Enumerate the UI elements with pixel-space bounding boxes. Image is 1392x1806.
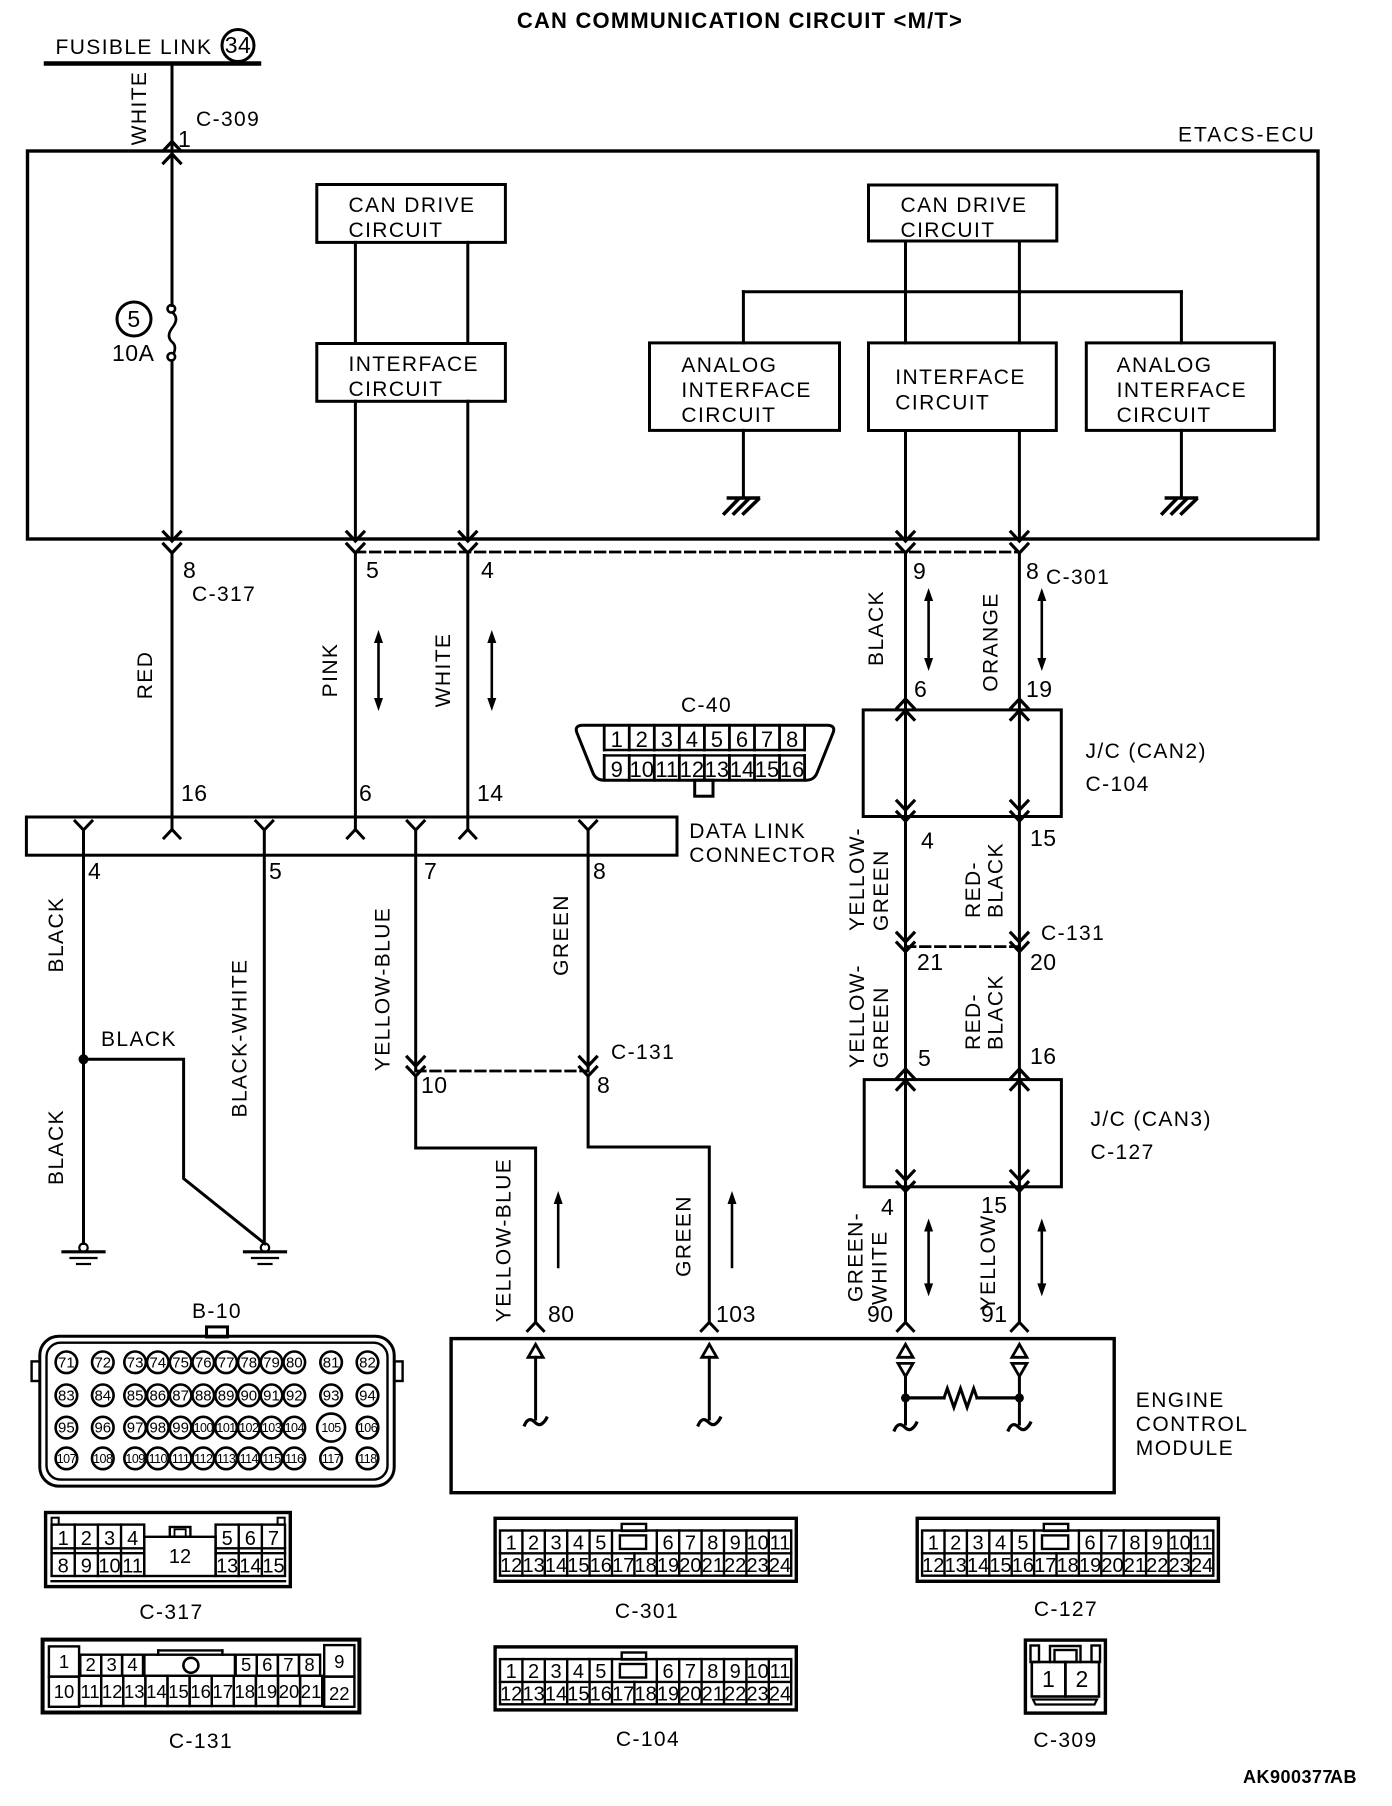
- svg-text:10: 10: [54, 1681, 75, 1702]
- junction connector J/C (CAN3) box: [864, 1080, 1061, 1187]
- svg-text:104: 104: [285, 1421, 305, 1435]
- wire YELLOW-BLUE: C-131 to ECM pin 80: [416, 1076, 536, 1322]
- wire YELLOW-GREEN: C-131 to J/C CAN3: [904, 947, 907, 1080]
- wire through J/C CAN2 (right): [1018, 710, 1021, 817]
- wire BLACK: C-301 to J/C (CAN2): [904, 553, 907, 710]
- svg-text:YELLOW-BLUE: YELLOW-BLUE: [372, 907, 395, 1071]
- DLC pin 8 exit (GREEN): [580, 821, 597, 830]
- svg-text:WHITE: WHITE: [869, 1230, 892, 1305]
- ground lead analog L: [742, 430, 745, 498]
- wire WHITE: fusible link to ETACS-ECU C-309 pin 1: [171, 64, 174, 306]
- svg-text:5: 5: [241, 1654, 251, 1675]
- svg-text:8: 8: [786, 727, 798, 752]
- svg-text:WHITE: WHITE: [432, 633, 455, 708]
- ECM internal lead below pin 90: [904, 1398, 907, 1424]
- svg-text:YELLOW-: YELLOW-: [846, 964, 869, 1068]
- svg-text:10: 10: [746, 1661, 768, 1683]
- connector arrows into J/C CAN2 (pin 19): [1011, 699, 1028, 708]
- connector boundary dashed line C-131 (left): [416, 1070, 588, 1073]
- DLC pin 16 entry (RED): [164, 830, 180, 839]
- svg-text:115: 115: [262, 1452, 281, 1466]
- ECM internal lead below pin 91: [1018, 1398, 1021, 1424]
- svg-text:5: 5: [269, 858, 282, 884]
- svg-text:11: 11: [80, 1681, 99, 1702]
- svg-text:20: 20: [679, 1683, 701, 1705]
- svg-text:BLACK: BLACK: [984, 974, 1007, 1050]
- svg-text:INTERFACE: INTERFACE: [895, 366, 1025, 389]
- svg-text:113: 113: [217, 1452, 236, 1466]
- fusible link bus bar: [46, 61, 259, 66]
- svg-text:19: 19: [657, 1555, 679, 1577]
- wire: CAN drive R to interface R (right leg): [1018, 241, 1021, 343]
- svg-text:10: 10: [1169, 1532, 1191, 1554]
- svg-text:FUSIBLE LINK: FUSIBLE LINK: [56, 36, 213, 59]
- svg-text:12: 12: [500, 1683, 522, 1705]
- DLC pin 14 entry (WHITE): [460, 830, 476, 839]
- svg-text:GREEN: GREEN: [550, 894, 573, 976]
- svg-text:5: 5: [918, 1045, 931, 1071]
- wire YELLOW-GREEN: J/C CAN2 to C-131: [904, 817, 907, 947]
- svg-text:ETACS-ECU: ETACS-ECU: [1178, 124, 1316, 147]
- connector arrows into ETACS top (C-309 pin 1): [164, 142, 181, 151]
- svg-text:12: 12: [680, 757, 704, 782]
- svg-text:C-131: C-131: [1041, 922, 1105, 945]
- ECM pin 80 entry fork: [528, 1322, 544, 1331]
- signal direction arrow (BLACK): [927, 598, 930, 661]
- svg-text:17: 17: [212, 1681, 233, 1702]
- svg-text:110: 110: [149, 1452, 168, 1466]
- svg-text:91: 91: [263, 1387, 280, 1404]
- svg-text:83: 83: [58, 1387, 75, 1404]
- signal direction arrow (PINK): [377, 640, 380, 701]
- connector C-104 pictorial (24-pin): [495, 1647, 796, 1710]
- connector arrows C-131 pin 21: [897, 933, 914, 942]
- svg-text:89: 89: [218, 1387, 235, 1404]
- svg-text:17: 17: [612, 1683, 634, 1705]
- svg-text:7: 7: [1107, 1532, 1118, 1554]
- junction node (resistor right): [1015, 1393, 1024, 1402]
- svg-text:11: 11: [655, 757, 678, 782]
- svg-text:WHITE: WHITE: [128, 71, 151, 146]
- svg-text:3: 3: [661, 727, 673, 752]
- svg-text:71: 71: [58, 1354, 75, 1371]
- svg-text:95: 95: [58, 1420, 75, 1437]
- svg-text:76: 76: [195, 1354, 212, 1371]
- svg-text:23: 23: [746, 1555, 768, 1577]
- svg-text:94: 94: [359, 1387, 376, 1404]
- svg-text:97: 97: [127, 1420, 144, 1437]
- svg-text:12: 12: [500, 1555, 522, 1577]
- DLC pin 5 exit (BLACK-WHITE): [256, 821, 273, 830]
- svg-text:100: 100: [194, 1421, 214, 1435]
- svg-text:15: 15: [168, 1681, 189, 1702]
- svg-text:5: 5: [366, 557, 379, 583]
- svg-text:1: 1: [611, 727, 623, 752]
- svg-text:15: 15: [567, 1683, 589, 1705]
- svg-text:16: 16: [181, 780, 208, 806]
- stub to analog interface R: [1180, 292, 1183, 343]
- svg-text:22: 22: [724, 1555, 746, 1577]
- svg-text:7: 7: [761, 727, 773, 752]
- svg-text:19: 19: [257, 1681, 278, 1702]
- junction node (resistor left): [901, 1393, 910, 1402]
- connector C-309 pictorial (2-pin): [1025, 1640, 1105, 1713]
- svg-text:111: 111: [172, 1452, 190, 1466]
- svg-text:BLACK-WHITE: BLACK-WHITE: [229, 959, 252, 1118]
- svg-text:12: 12: [922, 1555, 944, 1577]
- svg-text:15: 15: [989, 1555, 1011, 1577]
- wire YELLOW-BLUE: DLC pin 7 to C-131: [414, 855, 417, 1071]
- svg-text:8: 8: [597, 1072, 610, 1098]
- connector boundary dashed line C-317/C-301: [355, 551, 1019, 554]
- svg-text:5: 5: [127, 306, 140, 332]
- svg-text:C-309: C-309: [1033, 1729, 1097, 1752]
- svg-text:18: 18: [1057, 1555, 1079, 1577]
- svg-text:2: 2: [636, 727, 648, 752]
- svg-text:CIRCUIT: CIRCUIT: [895, 392, 990, 415]
- svg-text:BLACK: BLACK: [984, 842, 1007, 918]
- svg-text:CONNECTOR: CONNECTOR: [689, 844, 837, 867]
- svg-text:8: 8: [1129, 1532, 1140, 1554]
- svg-text:7: 7: [268, 1528, 279, 1550]
- connector C-301 pictorial (24-pin): [495, 1518, 796, 1581]
- svg-text:16: 16: [590, 1683, 612, 1705]
- svg-text:10A: 10A: [112, 340, 155, 366]
- ECM internal pin 91 (triangle pair): [1012, 1344, 1027, 1357]
- svg-text:6: 6: [662, 1532, 673, 1554]
- signal direction arrow (ORANGE): [1041, 598, 1044, 661]
- svg-text:CIRCUIT: CIRCUIT: [681, 404, 776, 427]
- block INTERFACE CIRCUIT (right): [869, 343, 1057, 431]
- svg-text:2: 2: [1076, 1666, 1089, 1692]
- svg-text:17: 17: [1034, 1555, 1056, 1577]
- svg-text:6: 6: [359, 780, 372, 806]
- svg-text:8: 8: [593, 858, 606, 884]
- svg-text:14: 14: [545, 1555, 567, 1577]
- svg-text:14: 14: [146, 1681, 167, 1702]
- svg-text:20: 20: [679, 1555, 701, 1577]
- block CAN DRIVE CIRCUIT (left): [317, 185, 506, 243]
- ground (body earth, left): [79, 1244, 87, 1252]
- connector arrows C-131 pin 20: [1011, 933, 1028, 942]
- svg-text:8: 8: [183, 557, 196, 583]
- svg-text:CIRCUIT: CIRCUIT: [349, 219, 444, 242]
- svg-text:2: 2: [528, 1532, 539, 1554]
- svg-text:CIRCUIT: CIRCUIT: [349, 378, 444, 401]
- svg-text:BLACK: BLACK: [45, 897, 68, 973]
- svg-text:1: 1: [1042, 1666, 1055, 1692]
- chassis ground (analog interface right): [1166, 496, 1196, 500]
- svg-text:3: 3: [550, 1661, 561, 1683]
- svg-text:16: 16: [590, 1555, 612, 1577]
- svg-text:14: 14: [477, 780, 504, 806]
- svg-text:87: 87: [172, 1387, 189, 1404]
- svg-text:98: 98: [149, 1420, 166, 1437]
- svg-text:16: 16: [190, 1681, 211, 1702]
- svg-text:5: 5: [595, 1661, 606, 1683]
- wire RED-BLACK: J/C CAN2 to C-131: [1018, 817, 1021, 947]
- ground lead analog R: [1180, 430, 1183, 498]
- svg-text:14: 14: [239, 1556, 261, 1578]
- wire GREEN: DLC pin 8 to C-131: [587, 855, 590, 1071]
- svg-text:99: 99: [172, 1420, 189, 1437]
- svg-text:9: 9: [730, 1532, 741, 1554]
- svg-text:8: 8: [58, 1556, 69, 1578]
- svg-text:C-104: C-104: [616, 1728, 680, 1751]
- svg-text:116: 116: [285, 1452, 304, 1466]
- DLC pin 7 exit (YELLOW-BLUE): [407, 821, 424, 830]
- connector arrows into J/C CAN2 (pin 6): [897, 699, 914, 708]
- svg-text:103: 103: [262, 1421, 282, 1435]
- block CAN DRIVE CIRCUIT (right): [869, 185, 1057, 241]
- svg-text:93: 93: [323, 1387, 340, 1404]
- svg-text:2: 2: [528, 1661, 539, 1683]
- svg-text:9: 9: [1152, 1532, 1163, 1554]
- chassis ground (analog interface left): [728, 496, 758, 500]
- wire YELLOW: J/C CAN3 to ECM pin 91: [1018, 1187, 1021, 1323]
- wire PINK: C-317 to data link connector: [354, 553, 357, 830]
- wire ORANGE: interface R to ETACS bottom: [1018, 431, 1021, 540]
- wire: CAN drive L to interface L (left leg): [354, 242, 357, 343]
- svg-text:1: 1: [59, 1651, 69, 1672]
- svg-text:12: 12: [169, 1546, 191, 1568]
- svg-text:AB: AB: [1330, 1767, 1357, 1787]
- ENGINE CONTROL MODULE block: [451, 1339, 1114, 1493]
- connector B-10 pictorial (ECM 48-pin block): [40, 1336, 394, 1486]
- svg-text:4: 4: [995, 1532, 1006, 1554]
- DATA LINK CONNECTOR block: [26, 817, 677, 855]
- wire through J/C CAN3 (left): [904, 1080, 907, 1187]
- wire GREEN-WHITE: J/C CAN3 to ECM pin 90: [904, 1187, 907, 1323]
- svg-text:86: 86: [149, 1387, 166, 1404]
- svg-text:11: 11: [770, 1532, 791, 1554]
- svg-text:23: 23: [746, 1683, 768, 1705]
- svg-text:C-127: C-127: [1034, 1598, 1098, 1621]
- svg-text:10: 10: [98, 1556, 120, 1578]
- svg-text:9: 9: [611, 757, 623, 782]
- terminating resistor R (CAN bus): [906, 1396, 945, 1399]
- svg-text:CIRCUIT: CIRCUIT: [901, 219, 996, 242]
- svg-text:4: 4: [481, 557, 494, 583]
- svg-text:81: 81: [323, 1354, 340, 1371]
- svg-text:21: 21: [1124, 1555, 1146, 1577]
- svg-text:82: 82: [359, 1354, 376, 1371]
- svg-text:B-10: B-10: [192, 1300, 242, 1323]
- connector arrows out of J/C CAN3 (pin 15): [1011, 1171, 1028, 1180]
- svg-text:J/C (CAN3): J/C (CAN3): [1091, 1108, 1212, 1131]
- svg-text:ANALOG: ANALOG: [1117, 354, 1213, 377]
- svg-text:14: 14: [967, 1555, 989, 1577]
- svg-text:13: 13: [705, 757, 729, 782]
- ECM internal pin 103 (triangle, continuation): [702, 1344, 717, 1357]
- svg-text:15: 15: [755, 757, 779, 782]
- svg-text:BLACK: BLACK: [45, 1109, 68, 1185]
- svg-text:4: 4: [921, 828, 934, 854]
- wire RED: C-317 to data link connector: [171, 553, 174, 830]
- svg-text:90: 90: [240, 1387, 257, 1404]
- svg-text:C-131: C-131: [611, 1041, 675, 1064]
- svg-text:117: 117: [322, 1452, 341, 1466]
- svg-text:CONTROL: CONTROL: [1136, 1413, 1248, 1436]
- svg-text:103: 103: [716, 1301, 756, 1327]
- svg-text:24: 24: [769, 1683, 791, 1705]
- svg-text:5: 5: [711, 727, 723, 752]
- svg-text:BLACK: BLACK: [865, 590, 888, 666]
- svg-text:15: 15: [1030, 825, 1057, 851]
- wire: CAN drive R to interface R (left leg): [904, 241, 907, 343]
- svg-text:C-301: C-301: [615, 1600, 679, 1623]
- svg-text:RED: RED: [134, 651, 157, 700]
- svg-text:ORANGE: ORANGE: [980, 592, 1003, 691]
- svg-text:75: 75: [172, 1354, 189, 1371]
- stub to analog interface L: [742, 292, 745, 343]
- connector C-127 pictorial (24-pin): [917, 1518, 1218, 1581]
- svg-text:7: 7: [283, 1654, 293, 1675]
- fuse 5 (circled number): [117, 302, 151, 336]
- ECM pin 91 entry fork: [1011, 1322, 1027, 1331]
- svg-text:ENGINE: ENGINE: [1136, 1389, 1225, 1412]
- svg-text:RED-: RED-: [962, 861, 985, 918]
- block INTERFACE CIRCUIT (left): [317, 344, 506, 402]
- svg-text:14: 14: [545, 1683, 567, 1705]
- connector arrows out of J/C CAN3 (pin 4): [897, 1171, 914, 1180]
- signal direction arrow (GREEN): [731, 1201, 734, 1267]
- svg-text:C-317: C-317: [192, 583, 256, 606]
- connector arrows into J/C CAN3 (pin 5): [897, 1069, 914, 1078]
- svg-text:GREEN: GREEN: [870, 986, 893, 1068]
- svg-text:5: 5: [595, 1532, 606, 1554]
- wire BLACK: DLC pin 4 to ground: [82, 855, 85, 1243]
- svg-text:20: 20: [1030, 949, 1057, 975]
- wire through J/C CAN3 (right): [1018, 1080, 1021, 1187]
- svg-text:23: 23: [1169, 1555, 1191, 1577]
- signal direction arrow (YELLOW-BLUE): [557, 1201, 560, 1267]
- svg-text:15: 15: [567, 1555, 589, 1577]
- svg-text:C-309: C-309: [196, 108, 260, 131]
- svg-text:34: 34: [225, 32, 252, 58]
- svg-text:C-301: C-301: [1046, 566, 1110, 589]
- svg-text:4: 4: [127, 1528, 138, 1550]
- block ANALOG INTERFACE CIRCUIT (right): [1086, 343, 1274, 431]
- svg-text:6: 6: [262, 1654, 272, 1675]
- svg-text:C-127: C-127: [1091, 1141, 1155, 1164]
- svg-text:BLACK: BLACK: [101, 1028, 177, 1051]
- svg-text:5: 5: [222, 1528, 233, 1550]
- svg-text:CAN COMMUNICATION CIRCUIT <M/T: CAN COMMUNICATION CIRCUIT <M/T>: [517, 8, 963, 33]
- svg-text:13: 13: [945, 1555, 967, 1577]
- svg-text:24: 24: [1191, 1555, 1213, 1577]
- ETACS-ECU block outline: [28, 151, 1319, 539]
- svg-text:109: 109: [125, 1452, 145, 1466]
- svg-text:11: 11: [1192, 1532, 1213, 1554]
- svg-text:118: 118: [358, 1452, 377, 1466]
- svg-text:6: 6: [662, 1661, 673, 1683]
- svg-text:3: 3: [104, 1528, 115, 1550]
- svg-text:CIRCUIT: CIRCUIT: [1117, 404, 1212, 427]
- svg-text:19: 19: [1026, 676, 1053, 702]
- connector C-131 pictorial (22-pin): [43, 1640, 360, 1713]
- svg-text:19: 19: [1079, 1555, 1101, 1577]
- fuse symbol: [168, 305, 176, 313]
- connector arrows C-317 pin 5 (PINK exit): [347, 532, 364, 541]
- wire: CAN drive L to interface L (right leg): [466, 242, 469, 343]
- svg-text:20: 20: [1101, 1555, 1123, 1577]
- svg-text:15: 15: [981, 1192, 1008, 1218]
- svg-text:21: 21: [702, 1555, 724, 1577]
- svg-text:1: 1: [928, 1532, 939, 1554]
- svg-text:16: 16: [1012, 1555, 1034, 1577]
- svg-text:6: 6: [245, 1528, 256, 1550]
- svg-text:4: 4: [573, 1661, 584, 1683]
- svg-text:4: 4: [88, 858, 101, 884]
- svg-text:107: 107: [57, 1452, 77, 1466]
- svg-text:MODULE: MODULE: [1136, 1437, 1234, 1460]
- wire GREEN: C-131 to ECM pin 103: [588, 1076, 709, 1322]
- svg-text:8: 8: [707, 1661, 718, 1683]
- wire WHITE: interface L to ETACS bottom: [466, 401, 469, 539]
- svg-text:3: 3: [550, 1532, 561, 1554]
- svg-text:DATA LINK: DATA LINK: [689, 820, 806, 843]
- svg-text:3: 3: [973, 1532, 984, 1554]
- svg-text:1: 1: [506, 1532, 517, 1554]
- ECM pin 103 entry fork: [701, 1322, 717, 1331]
- svg-text:21: 21: [917, 949, 944, 975]
- svg-text:13: 13: [124, 1681, 145, 1702]
- svg-text:84: 84: [94, 1387, 111, 1404]
- svg-text:GREEN: GREEN: [870, 849, 893, 931]
- svg-text:78: 78: [240, 1354, 257, 1371]
- wire RED-BLACK: C-131 to J/C CAN3: [1018, 947, 1021, 1080]
- svg-text:22: 22: [724, 1683, 746, 1705]
- svg-text:9: 9: [730, 1661, 741, 1683]
- connector C-40 pictorial (16-pin data link connector): [576, 725, 834, 780]
- ECM pin 90 entry fork: [898, 1322, 914, 1331]
- svg-text:C-40: C-40: [681, 694, 732, 717]
- svg-text:74: 74: [149, 1354, 166, 1371]
- svg-text:CAN DRIVE: CAN DRIVE: [349, 194, 476, 217]
- svg-text:4: 4: [573, 1532, 584, 1554]
- svg-text:101: 101: [216, 1421, 236, 1435]
- svg-text:YELLOW: YELLOW: [977, 1215, 1000, 1311]
- svg-text:85: 85: [127, 1387, 144, 1404]
- svg-text:13: 13: [522, 1555, 544, 1577]
- svg-text:102: 102: [239, 1421, 259, 1435]
- svg-text:YELLOW-: YELLOW-: [846, 827, 869, 931]
- svg-text:9: 9: [334, 1651, 344, 1672]
- block ANALOG INTERFACE CIRCUIT (left): [650, 343, 840, 431]
- connector arrows out of J/C CAN2 (pin 4): [897, 801, 914, 810]
- connector boundary dashed line C-131 (right): [906, 945, 1020, 948]
- svg-text:4: 4: [127, 1654, 137, 1675]
- svg-text:19: 19: [657, 1683, 679, 1705]
- svg-text:112: 112: [194, 1452, 213, 1466]
- svg-text:5: 5: [1017, 1532, 1028, 1554]
- wire RED: fuse to ETACS bottom: [171, 361, 174, 539]
- svg-text:7: 7: [424, 858, 437, 884]
- svg-text:6: 6: [736, 727, 748, 752]
- svg-text:108: 108: [93, 1452, 113, 1466]
- svg-text:6: 6: [914, 676, 927, 702]
- svg-text:13: 13: [522, 1683, 544, 1705]
- internal bus to analog interfaces: [743, 290, 1181, 293]
- svg-text:11: 11: [770, 1661, 791, 1683]
- wire BLACK: interface R to ETACS bottom: [904, 431, 907, 540]
- ECM internal pin 80 (triangle, continuation): [528, 1344, 543, 1357]
- svg-text:YELLOW-BLUE: YELLOW-BLUE: [492, 1158, 515, 1322]
- connector arrows C-317 pin 8 (RED exit): [164, 532, 181, 541]
- svg-text:106: 106: [358, 1421, 378, 1435]
- wire WHITE: C-317 to data link connector: [466, 553, 469, 830]
